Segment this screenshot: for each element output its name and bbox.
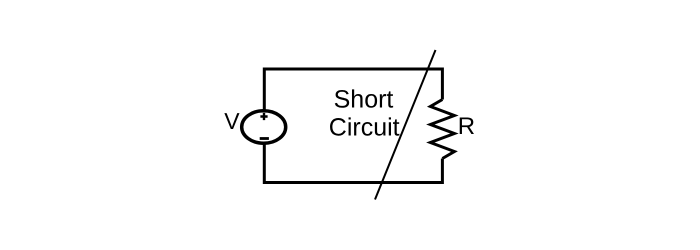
- resistor R (zigzag): [430, 100, 454, 159]
- annotation: Short Circuit text: [329, 86, 400, 142]
- wire: R bottom down, across bottom, up to V- terminal: [264, 145, 442, 183]
- label R (resistor designator): [458, 113, 475, 140]
- svg-text:Short: Short: [334, 86, 394, 114]
- svg-text:R: R: [458, 113, 475, 140]
- label V (source designator): [224, 108, 240, 134]
- svg-text:V: V: [224, 108, 240, 134]
- plus sign (V source polarity +): [260, 113, 267, 120]
- wire: V+ terminal up, across top, down to R top: [264, 69, 442, 110]
- short-circuit diagonal stroke: [375, 50, 436, 200]
- voltage source V: [242, 111, 286, 144]
- svg-text:Circuit: Circuit: [329, 114, 400, 142]
- minus sign (V source polarity -): [260, 137, 269, 140]
